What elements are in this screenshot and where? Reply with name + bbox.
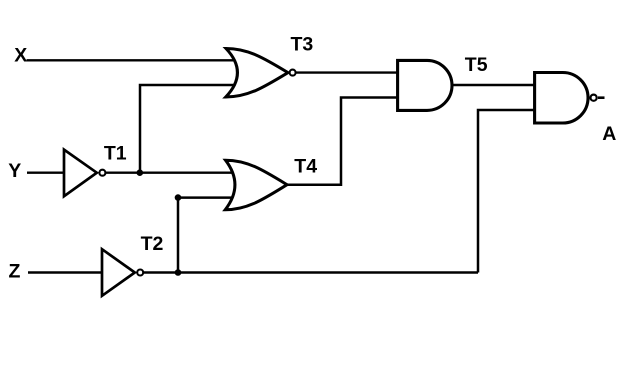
wire: inverter T1 output to OR gate T4 upper input — [105, 171, 250, 173]
wire: NOR gate T3 output to AND gate T5 upper input — [296, 71, 400, 73]
wire: inverter T2 output running right to NAND riser — [144, 271, 479, 273]
NAND gate output bubble — [591, 95, 597, 101]
wire: AND gate T5 output to NAND gate upper input — [450, 84, 537, 86]
svg-text:Z: Z — [9, 260, 21, 282]
wire: input X to NOR gate T3 upper input — [27, 59, 249, 61]
inverter T2 output bubble — [137, 270, 143, 276]
inverter T1 output bubble — [99, 170, 105, 176]
inverter T2 triangle — [102, 249, 135, 296]
svg-text:Y: Y — [8, 160, 21, 182]
junction dot: T2 output node — [175, 269, 182, 276]
OR gate T4 body — [225, 160, 287, 210]
wire: Z-line riser up to NAND gate lower input — [478, 110, 537, 273]
wire: OR gate T4 output riser up to AND gate T5 lower input — [285, 98, 400, 185]
wire: T1 output junction riser up to NOR gate T3 lower input — [140, 85, 248, 173]
NOR gate T3 output bubble — [290, 70, 296, 76]
svg-text:T5: T5 — [465, 54, 488, 76]
svg-text:X: X — [14, 45, 27, 67]
svg-text:T1: T1 — [104, 142, 127, 164]
svg-text:T3: T3 — [291, 33, 314, 55]
junction dot: T1 output node — [137, 169, 144, 176]
NOR gate T3 body — [226, 49, 288, 98]
wire: input Z to inverter T2 — [28, 271, 104, 273]
NAND gate body — [535, 73, 588, 124]
junction dot: T4 lower-input corner node — [175, 194, 182, 201]
svg-text:T4: T4 — [294, 155, 317, 177]
wire: Z-line junction riser up to OR gate T4 lower input — [178, 198, 250, 273]
wire: input Y to inverter T1 — [27, 171, 66, 173]
svg-text:T2: T2 — [141, 233, 164, 255]
AND gate T5 body — [398, 60, 452, 110]
svg-text:A: A — [602, 123, 616, 145]
wire: NAND gate output stub toward A — [598, 96, 605, 99]
inverter T1 triangle — [64, 150, 97, 197]
